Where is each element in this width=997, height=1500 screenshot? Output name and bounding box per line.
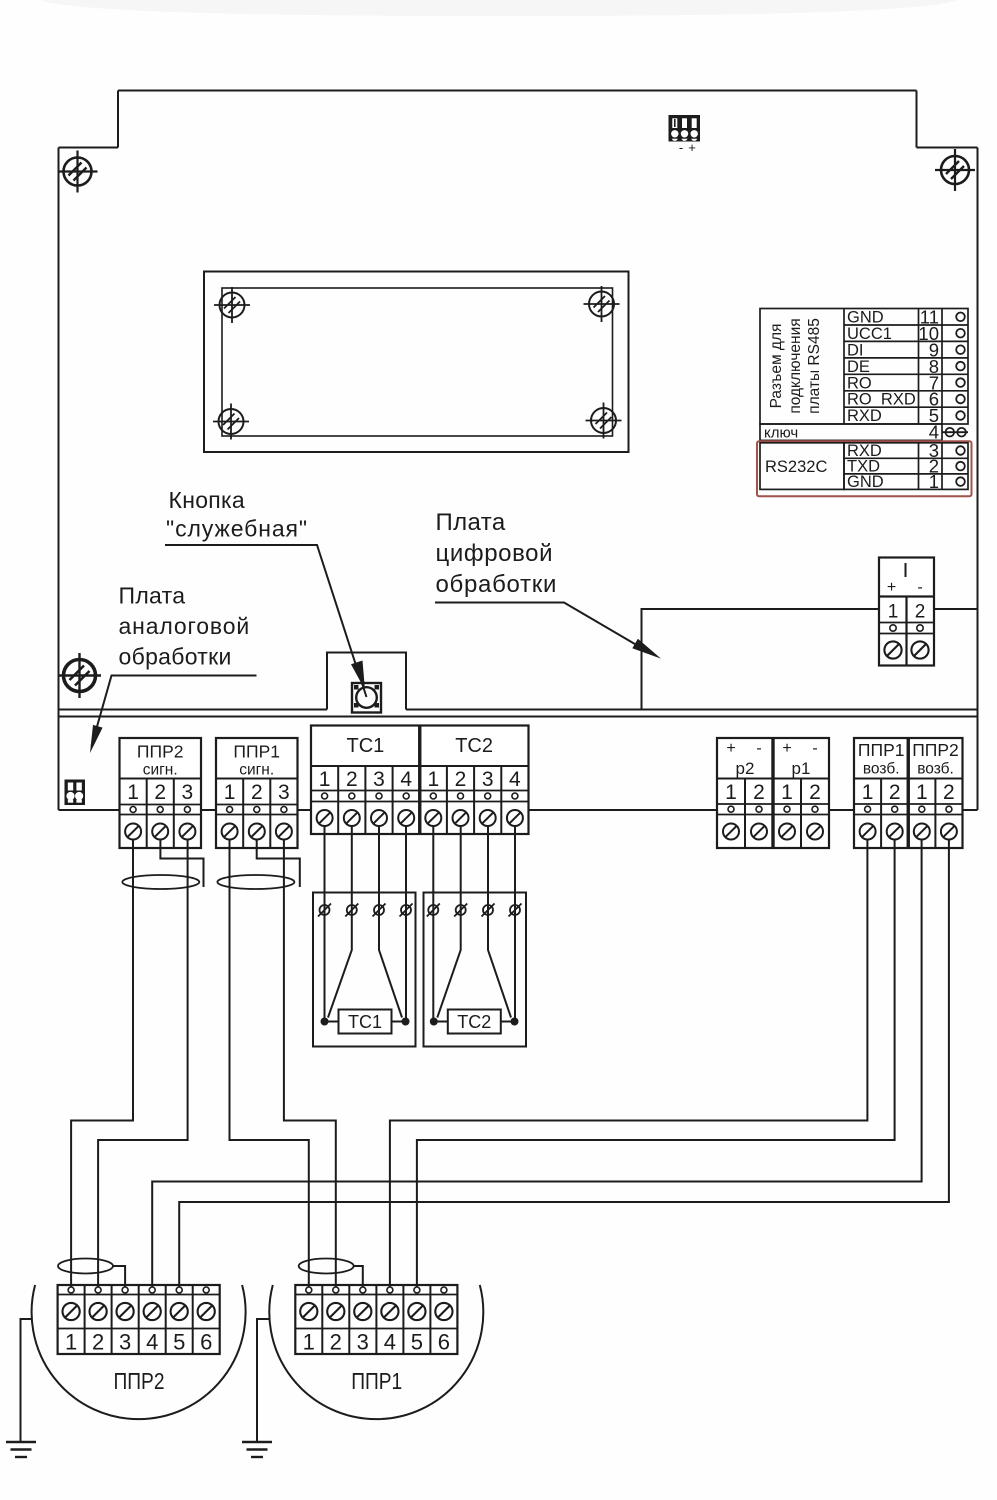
svg-text:3: 3	[482, 768, 494, 791]
display screw top-right	[584, 286, 620, 322]
screw PPR1 sensor terminals pin 4	[381, 1303, 398, 1320]
screw p2 p1 pressure pin 1	[723, 824, 739, 840]
svg-text:3: 3	[357, 1330, 369, 1355]
svg-text:3: 3	[373, 768, 385, 791]
ground PPR2	[6, 1319, 36, 1457]
TC2 wire-end symbol 4	[509, 904, 522, 917]
svg-text:обработки: обработки	[119, 644, 232, 670]
svg-text:ключ: ключ	[764, 425, 798, 442]
wire shield PPR1 top	[257, 840, 300, 888]
screw PPR2 sensor terminals pin 1	[63, 1303, 80, 1320]
svg-text:Плата: Плата	[119, 583, 186, 609]
screw left-middle	[59, 653, 102, 698]
leader line analog board	[92, 676, 257, 747]
flow sensor PPR1 body	[269, 1285, 483, 1419]
svg-text:р2: р2	[736, 759, 755, 778]
svg-text:4: 4	[146, 1330, 158, 1355]
RS485 connector table frame	[760, 309, 968, 425]
TC2 node right	[511, 1018, 519, 1026]
svg-text:возб.: возб.	[917, 761, 954, 778]
terminal block PPR1 signal	[216, 738, 298, 848]
display window inner	[222, 288, 613, 436]
wire shield PPR2 top	[160, 840, 203, 888]
svg-text:1: 1	[781, 781, 793, 804]
svg-text:TС2: TС2	[457, 1012, 491, 1032]
svg-text:1: 1	[224, 781, 236, 804]
svg-text:платы RS485: платы RS485	[806, 318, 823, 414]
TC1 wire-end symbol 2	[345, 904, 358, 917]
svg-text:ТС2: ТС2	[455, 735, 493, 757]
leader line button	[165, 545, 359, 673]
svg-text:2: 2	[154, 781, 166, 804]
wire I connector to housing edge	[934, 608, 978, 610]
screw PPR1 signal pin 2	[249, 824, 265, 840]
terminal block PPR1 sensor terminals	[295, 1285, 457, 1355]
svg-text:UCC1: UCC1	[847, 325, 892, 343]
leader line digital board	[435, 603, 640, 648]
screw TC1 TC2 thermal pin 4	[398, 810, 414, 826]
cable shield ellipse PPR2 bottom	[58, 1259, 113, 1274]
svg-text:1: 1	[725, 781, 737, 804]
wire PPR2-exc1 to PPR2:4	[152, 840, 921, 1288]
key jumper	[943, 431, 969, 433]
svg-text:RXD: RXD	[847, 407, 882, 425]
svg-text:3: 3	[278, 781, 290, 804]
key row pin 4	[760, 424, 942, 440]
svg-text:+: +	[726, 740, 735, 757]
svg-text:+: +	[887, 579, 896, 596]
screw PPR2 sensor terminals pin 5	[171, 1303, 188, 1320]
RS232C red outline	[757, 441, 972, 496]
RS232C grid	[844, 443, 968, 490]
svg-text:ППР1: ППР1	[858, 740, 905, 760]
screw PPR1 sensor terminals pin 1	[300, 1303, 317, 1320]
svg-text:1: 1	[65, 1330, 77, 1355]
terminal block PPR2 sensor terminals	[58, 1285, 220, 1355]
svg-text:6: 6	[438, 1330, 450, 1355]
svg-text:GND: GND	[847, 309, 884, 327]
svg-text:ППР1: ППР1	[233, 742, 280, 762]
TC2 wire 1	[433, 826, 448, 1022]
TC1 node right	[402, 1018, 410, 1026]
svg-text:1: 1	[303, 1330, 315, 1355]
svg-text:цифровой: цифровой	[436, 540, 554, 567]
RS232C label cell	[760, 443, 844, 490]
svg-text:сигн.: сигн.	[239, 762, 274, 779]
flow sensor PPR2 body	[32, 1285, 246, 1419]
screw PPR2 signal pin 3	[179, 824, 195, 840]
display window outer	[204, 272, 629, 453]
svg-text:2: 2	[330, 1330, 342, 1355]
TC2 wire-end symbol 1	[427, 904, 440, 917]
svg-text:4: 4	[384, 1330, 396, 1355]
svg-text:TС1: TС1	[348, 1012, 382, 1032]
svg-text:+: +	[782, 740, 791, 757]
screw TC1 TC2 thermal pin 1	[425, 810, 441, 826]
arrowhead analog board	[90, 725, 103, 753]
TC1 node left	[321, 1018, 329, 1026]
screw TC1 TC2 thermal pin 3	[480, 810, 496, 826]
svg-text:сигн.: сигн.	[143, 762, 178, 779]
svg-text:-: -	[756, 740, 761, 757]
svg-text:1: 1	[916, 781, 928, 804]
screw TC1 TC2 thermal pin 2	[344, 810, 360, 826]
ground PPR1	[242, 1319, 272, 1457]
svg-text:ППР2: ППР2	[114, 1368, 165, 1394]
screw PPR2 sensor terminals pin 3	[117, 1303, 134, 1320]
terminal block PPR1 PPR2 excitation	[854, 738, 963, 848]
svg-text:1: 1	[888, 602, 899, 623]
service button	[352, 683, 381, 713]
svg-text:Кнопка: Кнопка	[169, 487, 246, 513]
screw PPR2 sensor terminals pin 4	[144, 1303, 161, 1320]
svg-text:DI: DI	[847, 341, 864, 359]
TC2 wire-end symbol 2	[454, 904, 467, 917]
analog board connector 2pin	[65, 780, 86, 806]
svg-text:возб.: возб.	[863, 761, 900, 778]
screw PPR1 PPR2 excitation pin 1	[914, 824, 930, 840]
TC2 sensor box	[424, 893, 527, 1047]
svg-text:ППР1: ППР1	[351, 1368, 402, 1394]
svg-text:1: 1	[127, 781, 139, 804]
svg-text:ППР2: ППР2	[912, 740, 959, 760]
wire PPR2-exc2 to PPR2:5	[179, 840, 949, 1288]
svg-text:2: 2	[943, 781, 955, 804]
TC1 wire-end symbol 3	[373, 904, 386, 917]
svg-text:6: 6	[200, 1330, 212, 1355]
wire PPR2-sig1 to PPR2:1	[71, 840, 133, 1288]
cable shield ellipse PPR1 bottom	[299, 1259, 354, 1274]
screw PPR1 sensor terminals pin 3	[354, 1303, 371, 1320]
svg-text:1: 1	[929, 471, 939, 492]
svg-text:RS232C: RS232C	[765, 458, 827, 476]
svg-text:2: 2	[809, 781, 821, 804]
TC2 wire 4	[501, 826, 515, 1022]
svg-text:2: 2	[915, 602, 926, 623]
screw PPR2 sensor terminals pin 6	[198, 1303, 215, 1320]
wire shield PPR1 bottom	[354, 1266, 363, 1287]
svg-text:-: -	[917, 579, 922, 596]
svg-text:2: 2	[346, 768, 358, 791]
svg-text:DE: DE	[847, 358, 870, 376]
screw p2 p1 pressure pin 1	[779, 824, 795, 840]
svg-text:2: 2	[753, 781, 765, 804]
terminal block p2 p1 pressure	[717, 738, 829, 848]
svg-text:-: -	[812, 740, 817, 757]
screw PPR1 sensor terminals pin 6	[435, 1303, 452, 1320]
screw PPR1 PPR2 excitation pin 1	[860, 824, 876, 840]
TC1 wire 2	[328, 826, 352, 1018]
TC2 node left	[430, 1018, 438, 1026]
screw PPR2 sensor terminals pin 2	[90, 1303, 107, 1320]
TC1 wire 3	[379, 826, 402, 1018]
service button mount	[327, 653, 406, 710]
display screw bottom-right	[586, 403, 622, 439]
screw PPR1 signal pin 3	[276, 824, 292, 840]
screw PPR1 signal pin 1	[222, 824, 238, 840]
svg-text:3: 3	[119, 1330, 131, 1355]
board section line upper	[59, 709, 978, 711]
svg-text:1: 1	[319, 768, 331, 791]
TC2 wire-end symbol 3	[482, 904, 495, 917]
screw top-right	[935, 149, 975, 191]
svg-text:Разъем для: Разъем для	[768, 324, 785, 409]
wire PPR2-sig3 to PPR2:2	[98, 840, 188, 1288]
svg-text:-: -	[679, 140, 683, 155]
current output connector I	[879, 558, 934, 666]
svg-text:4: 4	[400, 768, 412, 791]
terminal block TC1 TC2 thermal	[311, 726, 529, 835]
TC1 label box	[339, 1010, 392, 1034]
svg-text:2: 2	[889, 781, 901, 804]
screw PPR2 signal pin 2	[152, 824, 168, 840]
TC1 sensor box	[313, 893, 416, 1047]
svg-text:5: 5	[173, 1330, 185, 1355]
svg-text:5: 5	[411, 1330, 423, 1355]
cable shield ellipse PPR2 top	[122, 875, 199, 889]
screw TC1 TC2 thermal pin 3	[371, 810, 387, 826]
TC1 wire-end symbol 1	[318, 904, 331, 917]
svg-text:Плата: Плата	[436, 509, 506, 536]
arrowhead digital board	[632, 639, 661, 659]
wire PPR1-exc2 to PPR1:5	[417, 840, 895, 1288]
wire shield PPR2 bottom	[113, 1266, 125, 1287]
screw TC1 TC2 thermal pin 1	[317, 810, 333, 826]
arrowhead button	[358, 671, 367, 697]
display screw bottom-left	[213, 404, 249, 440]
svg-text:2: 2	[455, 768, 467, 791]
screw top-left	[58, 151, 98, 193]
board section line lower	[59, 716, 978, 718]
svg-text:RO: RO	[847, 374, 872, 392]
svg-text:GND: GND	[847, 473, 884, 491]
svg-text:обработки: обработки	[436, 571, 558, 598]
screw PPR1 PPR2 excitation pin 2	[941, 824, 957, 840]
svg-text:подключения: подключения	[787, 318, 804, 413]
svg-text:2: 2	[92, 1330, 104, 1355]
svg-text:RO_RXD: RO_RXD	[847, 391, 916, 409]
screw TC1 TC2 thermal pin 4	[507, 810, 523, 826]
display screw top-left	[214, 287, 250, 323]
svg-text:р1: р1	[792, 759, 811, 778]
TC1 wire-end symbol 4	[400, 904, 413, 917]
svg-text:3: 3	[182, 781, 194, 804]
screw I-1	[884, 641, 901, 658]
cable shield ellipse PPR1 top	[217, 875, 294, 889]
svg-text:ТС1: ТС1	[347, 735, 385, 757]
screw p2 p1 pressure pin 2	[751, 824, 767, 840]
screw I-2	[911, 641, 928, 658]
TC2 wire 3	[488, 826, 511, 1018]
wire PPR1-sig1 to PPR1:1	[230, 840, 309, 1288]
enclosure outline	[59, 91, 978, 811]
TC1 wire 1	[325, 826, 339, 1022]
wire PPR1-sig3 to PPR1:2	[284, 840, 336, 1288]
screw PPR1 PPR2 excitation pin 2	[887, 824, 903, 840]
terminal block PPR2 signal	[120, 738, 202, 848]
svg-text:+: +	[688, 140, 696, 155]
wire PPR1-exc1 to PPR1:4	[390, 840, 868, 1288]
svg-text:4: 4	[509, 768, 521, 791]
TC1 wire 4	[392, 826, 407, 1022]
TC2 label box	[448, 1010, 501, 1034]
svg-text:"служебная": "служебная"	[166, 516, 308, 542]
svg-text:2: 2	[251, 781, 263, 804]
screw p2 p1 pressure pin 2	[807, 824, 823, 840]
digital board outline	[642, 609, 880, 710]
power connector top	[669, 115, 701, 142]
svg-text:ППР2: ППР2	[137, 742, 184, 762]
TC2 wire 2	[437, 826, 460, 1018]
screw PPR2 signal pin 1	[125, 824, 141, 840]
screw PPR1 sensor terminals pin 2	[327, 1303, 344, 1320]
svg-text:аналоговой: аналоговой	[119, 613, 251, 639]
svg-text:1: 1	[862, 781, 874, 804]
screw PPR1 sensor terminals pin 5	[408, 1303, 425, 1320]
svg-text:1: 1	[427, 768, 439, 791]
screw TC1 TC2 thermal pin 2	[453, 810, 469, 826]
